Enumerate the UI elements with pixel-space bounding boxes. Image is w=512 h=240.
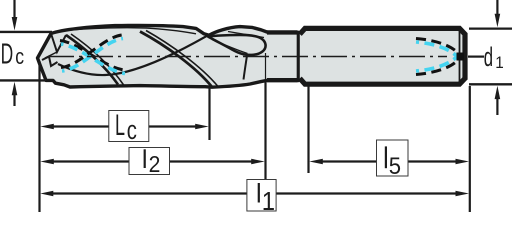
centerline axis (48, 56, 447, 58)
Dc top arrow (13, 0, 15, 19)
l5 left extension line (307, 86, 309, 173)
svg-text:1: 1 (262, 187, 275, 216)
svg-text:c: c (15, 45, 24, 69)
joint line body/shank (297, 31, 299, 82)
neck bottom edge (267, 78, 298, 82)
svg-text:2: 2 (149, 151, 161, 177)
shank (300, 28, 465, 84)
svg-text:D: D (1, 38, 14, 71)
Lc label box (109, 111, 149, 142)
Dc top extension line (0, 31, 52, 33)
runout lower line to bottom edge (244, 56, 248, 80)
drill body (fluted part + neck) (38, 25, 299, 87)
runout upper margin line (228, 32, 264, 38)
neck top edge (267, 30, 298, 34)
Dc bottom arrow (13, 93, 15, 106)
l2 flute-end mark line (265, 53, 267, 81)
d1 bottom extension line (469, 83, 512, 85)
Dc bottom extension line (0, 79, 46, 81)
l1 label box (247, 180, 276, 212)
d1 leader (468, 55, 484, 57)
l5 dimension line (322, 160, 456, 162)
shank end face thick edge (463, 33, 468, 80)
flute leading edge diag 2 (double line) (140, 32, 212, 88)
d1 top extension line (469, 27, 512, 29)
svg-text:d: d (484, 42, 493, 72)
coolant channel X: curve A cyan (61, 44, 125, 74)
Lc dimension line (52, 125, 197, 127)
l2 right extension line (264, 82, 266, 179)
coolant exit dot (457, 53, 465, 61)
Dc label (1, 38, 14, 71)
coolant channel X: curve B black (61, 35, 122, 68)
Lc right extension line (208, 87, 210, 140)
svg-text:5: 5 (389, 152, 401, 179)
coolant channel X: curve B cyan (62, 39, 123, 72)
right extension line x=469.8 (469, 86, 471, 212)
l2 dimension line (52, 160, 253, 162)
coolant V upper cyan (416, 42, 458, 57)
coolant V at shank, upper black (416, 39, 459, 55)
d1 bottom arrow (496, 99, 498, 115)
l2 label box (129, 148, 170, 175)
flute leading edge diag 1 (double line) (66, 35, 118, 85)
svg-text:1: 1 (495, 53, 504, 72)
d1 label (484, 42, 493, 72)
coolant V lower cyan (416, 56, 458, 71)
flute runout teardrop (208, 35, 266, 55)
svg-text:c: c (127, 116, 137, 145)
top margin line (60, 28, 196, 34)
left extension line x=39.5 (38, 61, 40, 212)
shank end chamfer line (459, 30, 461, 83)
coolant channel X: curve A black (60, 41, 124, 71)
tip facet lines (51, 34, 66, 53)
l1 dimension line (52, 192, 456, 194)
svg-text:L: L (115, 110, 125, 143)
flute rising S-curve (58, 36, 207, 75)
coolant V lower black (416, 59, 459, 75)
d1 top arrow (496, 0, 498, 16)
l5 label box (377, 140, 409, 176)
